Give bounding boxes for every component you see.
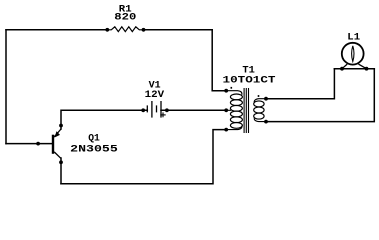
collector diagonal — [54, 129, 61, 137]
node emitter — [59, 160, 63, 164]
node base — [36, 142, 40, 146]
lamp L1 — [342, 43, 367, 69]
wire top rail right segment — [144, 29, 213, 31]
wire right-top vertical to transformer top — [212, 30, 226, 91]
svg-text:10TO1CT: 10TO1CT — [223, 76, 276, 87]
node battery right — [165, 108, 169, 112]
transistor Q1 body — [53, 129, 61, 158]
wire bottom rail — [61, 130, 226, 184]
node secondary top — [264, 97, 268, 101]
battery V1 — [147, 101, 161, 118]
wire secondary top to lamp — [266, 69, 334, 99]
node battery left — [141, 108, 145, 112]
battery plus sign — [160, 112, 165, 117]
wire emitter to bottom rail — [60, 158, 62, 184]
emitter diagonal — [54, 152, 61, 158]
wire base — [6, 143, 52, 145]
transformer primary winding — [226, 91, 242, 130]
wire lamp right to secondary bottom — [266, 69, 374, 122]
filament vesica — [352, 46, 354, 62]
node xfmr primary top — [224, 89, 228, 93]
svg-text:L1: L1 — [347, 33, 360, 44]
node R1 left — [105, 28, 109, 32]
resistor R1 — [107, 27, 143, 32]
transformer secondary winding — [254, 99, 266, 122]
node lamp left — [340, 67, 344, 71]
node xfmr primary bottom — [224, 128, 228, 132]
svg-text:2N3055: 2N3055 — [70, 145, 118, 156]
lamp lead diagonals — [342, 64, 347, 69]
svg-text:Q1: Q1 — [88, 133, 100, 144]
node lamp right — [365, 67, 369, 71]
node collector — [59, 124, 63, 128]
center tap stub — [226, 109, 231, 111]
wire lamp bottom — [334, 68, 374, 70]
wire collector to battery to center tap — [61, 110, 147, 129]
node xfmr center tap — [224, 108, 228, 112]
wire left rail — [5, 30, 7, 144]
transistor arrow (points toward bar on collector lead) — [55, 131, 61, 137]
node R1 right — [142, 28, 146, 32]
base bar — [52, 135, 54, 154]
node secondary bottom — [264, 120, 268, 124]
transformer T1 core — [244, 88, 248, 133]
svg-text:12V: 12V — [145, 90, 165, 101]
primary phase dot — [231, 87, 233, 89]
svg-text:820: 820 — [114, 13, 136, 24]
wire top rail left segment — [6, 29, 107, 31]
secondary phase dot — [258, 95, 260, 97]
